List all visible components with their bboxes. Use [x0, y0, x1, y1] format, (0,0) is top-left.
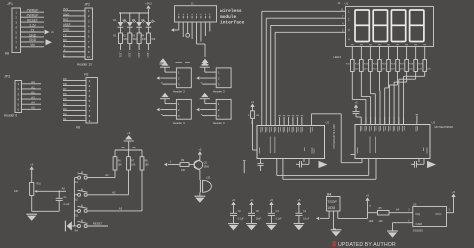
resistor R1 330 — [113, 27, 128, 43]
ground C4 — [294, 223, 305, 225]
wire segment f to U3 — [389, 72, 397, 125]
resistor R8 10K pullup — [140, 150, 149, 211]
wire segment i to U3 — [404, 72, 425, 125]
wires JP2 pins with net labels — [63, 7, 85, 57]
svg-text:10K: 10K — [181, 169, 186, 172]
svg-text:+3V3: +3V3 — [145, 1, 152, 5]
wire P5 pin3 — [201, 83, 217, 84]
svg-text:A3: A3 — [31, 96, 35, 100]
connector JP2 10-pin header — [84, 3, 93, 60]
svg-text:U3: U3 — [432, 121, 436, 125]
svg-text:JP2: JP2 — [84, 3, 90, 7]
svg-text:A3: A3 — [119, 207, 123, 211]
svg-text:MC74HC595AD: MC74HC595AD — [435, 125, 454, 129]
wires JP1 pins with net labels — [21, 9, 45, 48]
svg-text:D7: D7 — [63, 87, 67, 91]
switch S3 pushbutton — [74, 205, 87, 218]
resistor R3 330 — [132, 27, 147, 43]
svg-text:D8: D8 — [63, 82, 67, 86]
wire net A1 — [87, 173, 115, 177]
svg-text:+5: +5 — [250, 198, 254, 202]
speaker LS1 — [200, 170, 212, 196]
svg-text:0.1uF: 0.1uF — [303, 217, 310, 220]
wire net RESET — [87, 222, 108, 226]
svg-text:LS1: LS1 — [206, 176, 211, 180]
svg-text:D1: D1 — [113, 18, 117, 22]
svg-text:+5: +5 — [198, 147, 202, 151]
power arrow +3V3 left — [160, 58, 167, 62]
svg-text:GND: GND — [63, 28, 69, 32]
svg-text:10uF: 10uF — [256, 217, 262, 220]
ground U2 — [309, 159, 328, 169]
svg-text:PWRUP: PWRUP — [27, 9, 39, 13]
resistor R6 10K pullup — [113, 150, 122, 178]
capacitor C3 0.1uF — [268, 198, 282, 224]
text wireless module interface — [220, 8, 245, 26]
svg-text:U4: U4 — [327, 192, 331, 196]
ground R10 — [26, 213, 37, 215]
wire LED3 net — [137, 44, 140, 59]
svg-text:D6: D6 — [63, 92, 67, 96]
wire segment g to U3 — [394, 72, 407, 125]
power arrow P5 pin1 — [200, 61, 216, 72]
svg-text:10K: 10K — [14, 190, 19, 193]
power +5 R10 — [30, 162, 34, 182]
wire segment b to U3 — [361, 72, 370, 125]
wire SER net to U2 — [250, 118, 257, 150]
svg-text:GND: GND — [29, 38, 37, 42]
svg-text:Header 3: Header 3 — [213, 121, 225, 125]
wires U3 top pin stubs — [361, 114, 418, 124]
svg-text:A0: A0 — [62, 186, 66, 190]
svg-text:U5: U5 — [413, 202, 417, 206]
svg-text:S2: S2 — [75, 197, 79, 201]
svg-text:RX: RX — [63, 38, 67, 42]
svg-text:wireless: wireless — [220, 8, 242, 14]
LED D4 — [141, 12, 154, 27]
ground LS1 — [195, 195, 206, 197]
svg-text:+5: +5 — [366, 194, 370, 198]
capacitor U2 gnd pin — [296, 159, 309, 168]
svg-text:Header 6: Header 6 — [4, 114, 17, 118]
wire bus display digit-select to U2 — [262, 8, 346, 117]
svg-text:TX: TX — [63, 33, 67, 37]
svg-text:RESET: RESET — [27, 18, 38, 22]
svg-text:D2: D2 — [123, 18, 127, 22]
LED D3 — [132, 12, 145, 27]
svg-text:Header 3: Header 3 — [173, 121, 185, 125]
wire P6 pin3 — [161, 114, 177, 115]
svg-text:D2: D2 — [63, 112, 67, 116]
svg-text:0.1uF: 0.1uF — [276, 217, 283, 220]
power arrow P7 pin1 — [200, 93, 216, 104]
svg-text:10: 10 — [87, 55, 91, 59]
wire U2 SDO to U3 SER — [312, 114, 363, 163]
wire SRCLK chain U2-U3 — [277, 159, 369, 176]
connector P4 Header 3 — [173, 68, 191, 93]
wire segment d to U3 — [378, 72, 381, 125]
svg-text:330: 330 — [142, 38, 147, 41]
svg-text:D4: D4 — [63, 102, 67, 106]
svg-text:D9: D9 — [63, 77, 67, 81]
wire P4 pin3 — [161, 83, 177, 84]
svg-text:1MF: 1MF — [369, 220, 374, 223]
net arrow U4 out — [316, 217, 319, 220]
svg-text:0.1uF: 0.1uF — [238, 217, 245, 220]
connector P6 Header 3 — [173, 99, 191, 124]
svg-text:+5: +5 — [127, 131, 131, 135]
net arrow on JP1 pin 5 — [45, 30, 50, 35]
wire U3 left pin stub — [351, 154, 356, 156]
switch S4 pushbutton — [74, 220, 87, 233]
svg-text:JP3: JP3 — [4, 75, 10, 79]
svg-text:S1: S1 — [75, 180, 79, 184]
svg-text:LED3: LED3 — [137, 52, 140, 59]
wire U5 GND to ground — [393, 219, 413, 231]
display U1 4-digit 7-segment — [338, 1, 434, 46]
wire LED2 net — [128, 44, 131, 59]
wire RCLK chain U2-U3 — [283, 159, 376, 180]
ground arrow on JP1 pin 7 — [46, 39, 53, 45]
capacitor U3 gnd pin — [411, 159, 424, 168]
wire net A3 — [87, 207, 142, 211]
svg-text:module: module — [220, 14, 237, 20]
ground C3 — [266, 223, 277, 225]
svg-text:RST: RST — [63, 17, 69, 21]
transistor Q1 3906 — [194, 159, 210, 170]
svg-text:E: E — [63, 53, 65, 57]
net arrow P6 pin2 — [156, 108, 176, 111]
power +5 sensor — [365, 194, 377, 213]
resistor R4 330 — [141, 27, 156, 43]
wire segment a to U3 — [352, 72, 366, 125]
wire P7 pin3 — [201, 114, 217, 115]
svg-text:U2: U2 — [326, 121, 330, 125]
resistor R9 10K base — [180, 159, 194, 172]
resistor R2 330 — [123, 27, 138, 43]
power +5 Q1 emitter — [198, 147, 202, 159]
svg-text:DS: DS — [250, 121, 253, 125]
resistor R5 10K pullup — [369, 207, 390, 223]
svg-text:-1: -1 — [63, 43, 66, 47]
svg-text:D1: D1 — [63, 117, 67, 121]
svg-text:interface: interface — [220, 20, 245, 26]
resistor R16 segment series — [391, 47, 404, 72]
power +5 U3 with decoupling cap — [353, 101, 362, 117]
svg-text:S4: S4 — [75, 229, 79, 233]
op IC U2 MC74HC595AD shift register — [257, 121, 336, 159]
svg-text:VCC: VCC — [435, 212, 442, 216]
logo mark — [332, 241, 336, 246]
svg-text:Header 10: Header 10 — [77, 63, 92, 67]
svg-text:+5: +5 — [297, 198, 301, 202]
ground C5 — [246, 223, 257, 225]
svg-text:3906: 3906 — [204, 165, 210, 168]
ground U4 — [331, 229, 342, 231]
wire LED supply rail — [119, 12, 148, 14]
svg-text:10K: 10K — [379, 220, 384, 223]
svg-text:Header 3: Header 3 — [173, 89, 185, 93]
svg-text:10K: 10K — [145, 164, 150, 167]
svg-text:LED4: LED4 — [146, 52, 149, 59]
svg-text:-2: -2 — [63, 48, 66, 52]
svg-text:A5: A5 — [31, 106, 35, 110]
wire R10 bottom to ground — [32, 196, 60, 212]
svg-text:GND: GND — [29, 33, 37, 37]
capacitor C4 0.1uF — [295, 198, 309, 224]
LED D2 — [123, 12, 136, 27]
wire DQ net A4 — [389, 207, 413, 212]
net stub below U2 left — [243, 161, 246, 174]
svg-text:PWRUP: PWRUP — [27, 13, 39, 17]
svg-text:A1: A1 — [105, 173, 109, 177]
svg-text:+5: +5 — [452, 190, 456, 194]
svg-text:DQ: DQ — [416, 212, 421, 216]
svg-text:H8: H8 — [5, 52, 9, 56]
ground U3 — [424, 159, 436, 169]
svg-text:1838: 1838 — [327, 206, 335, 210]
wires H2 pins — [63, 77, 86, 121]
wire switch common rail — [72, 178, 75, 226]
connector JP3 6-pin header — [4, 75, 22, 113]
svg-text:A4: A4 — [31, 101, 35, 105]
resistor R12 segment series — [355, 47, 368, 72]
ground U5 — [387, 230, 398, 232]
svg-text:3.3V: 3.3V — [29, 23, 36, 27]
wire net A2 — [87, 190, 129, 194]
switch S1 pushbutton — [74, 171, 87, 184]
svg-text:H8: H8 — [76, 125, 80, 129]
svg-text:10K: 10K — [256, 115, 260, 117]
svg-text:A0: A0 — [31, 80, 35, 84]
wire segment e to U3 — [385, 72, 389, 125]
svg-text:R10: R10 — [37, 183, 42, 186]
svg-text:Header 3: Header 3 — [213, 89, 225, 93]
svg-text:330: 330 — [123, 38, 128, 41]
svg-text:LED2: LED2 — [128, 52, 131, 59]
svg-text:TSOP: TSOP — [327, 200, 337, 204]
svg-text:D3: D3 — [63, 107, 67, 111]
svg-text:10K: 10K — [131, 164, 136, 167]
net arrow P5 pin2 — [196, 76, 216, 79]
wires wireless module pins — [174, 22, 210, 57]
svg-text:S3: S3 — [75, 214, 79, 218]
resistor R19 segment series — [418, 47, 431, 72]
svg-text:330: 330 — [133, 38, 138, 41]
power arrow P4 pin1 — [160, 61, 176, 72]
svg-text:UPDATED BY AUTHOR: UPDATED BY AUTHOR — [338, 242, 396, 248]
svg-text:A1: A1 — [31, 85, 35, 89]
svg-text:U1: U1 — [345, 2, 349, 6]
power arrow P6 pin1 — [160, 93, 176, 104]
resistor R18 segment series — [409, 47, 422, 72]
switch S2 pushbutton — [74, 188, 87, 201]
sensor U5 DS1820 — [413, 202, 447, 232]
op IC U3 MC74HC595AD shift register — [355, 121, 453, 159]
svg-text:+5: +5 — [251, 100, 255, 104]
connector P7 Header 3 — [213, 99, 231, 124]
resistor R11 segment series — [346, 47, 359, 72]
svg-text:330: 330 — [151, 38, 156, 41]
svg-text:Vin: Vin — [30, 43, 35, 47]
display pin labels — [351, 44, 426, 46]
resistor R7 10K pullup — [127, 150, 136, 195]
svg-text:AREF: AREF — [63, 23, 71, 27]
resistor R15 segment series — [382, 47, 395, 72]
net arrow wireless RX — [171, 28, 174, 31]
wire LED4 net — [146, 44, 149, 59]
svg-text:D3: D3 — [132, 18, 136, 22]
resistor R14 segment series — [373, 47, 386, 72]
ground arrow switches — [65, 221, 71, 232]
svg-text:RESET: RESET — [93, 222, 103, 226]
svg-text:A4: A4 — [396, 207, 400, 211]
wire U5 VCC to +5 — [447, 190, 456, 213]
wireless module connector J1 — [175, 3, 217, 22]
LED D1 — [113, 12, 126, 27]
power arrow +3V3 below module — [202, 59, 209, 63]
capacitor C7 at U2 left bottom — [258, 159, 264, 172]
net arrow P4 pin2 — [156, 76, 176, 79]
ground C2 — [228, 223, 239, 225]
pin name dashes under module — [176, 61, 191, 63]
svg-text:+5: +5 — [354, 101, 358, 105]
resistor R17 segment series — [400, 47, 413, 72]
resistor pullup near U2 — [248, 100, 260, 119]
svg-text:3V3: 3V3 — [63, 7, 68, 11]
svg-text:D5: D5 — [63, 97, 67, 101]
connector H2 9-pin header — [84, 73, 98, 124]
svg-text:JP1: JP1 — [7, 2, 13, 6]
power +5 button pullups — [115, 131, 142, 150]
capacitor C5 10uF — [248, 198, 262, 224]
svg-text:+5: +5 — [270, 198, 274, 202]
svg-text:+5: +5 — [232, 198, 236, 202]
svg-text:D4: D4 — [141, 18, 145, 22]
svg-text:LED4: LED4 — [334, 55, 342, 59]
svg-text:10K: 10K — [118, 164, 123, 167]
wire LED1 net — [118, 44, 121, 59]
resistor R13 segment series — [364, 47, 377, 72]
net arrow buzzer drive — [164, 161, 180, 167]
svg-text:A2: A2 — [112, 190, 116, 194]
wires JP3 analog pins — [22, 80, 42, 110]
capacitor C2 0.1uF — [230, 198, 244, 224]
antenna node circle — [186, 33, 190, 37]
svg-text:A2: A2 — [31, 90, 35, 94]
wire segment c to U3 — [370, 72, 375, 125]
capacitor C1 0.1uF — [56, 191, 70, 211]
wires U4 pins — [320, 211, 368, 218]
svg-text:DS1820: DS1820 — [413, 228, 424, 232]
svg-text:H2: H2 — [84, 73, 88, 77]
svg-text:Q1: Q1 — [204, 160, 208, 164]
svg-text:MC74HC595AD: MC74HC595AD — [332, 125, 336, 150]
connector JP1 8-pin header — [7, 2, 21, 53]
svg-text:0.1uF: 0.1uF — [64, 203, 71, 206]
wires U2 top pin stubs — [262, 116, 303, 126]
resistor R10 10K trimmer — [14, 183, 66, 196]
net arrow P7 pin2 — [196, 108, 216, 111]
svg-text:GND: GND — [63, 12, 69, 16]
svg-text:GND: GND — [416, 222, 424, 226]
wire segment h to U3 — [399, 72, 416, 125]
svg-text:+5: +5 — [30, 162, 34, 166]
power +3V3 for LED bank — [147, 9, 149, 13]
svg-text:LED1: LED1 — [118, 52, 121, 59]
connector P5 Header 3 — [213, 68, 231, 93]
IR receiver U4 TSOP1838 — [327, 192, 341, 211]
